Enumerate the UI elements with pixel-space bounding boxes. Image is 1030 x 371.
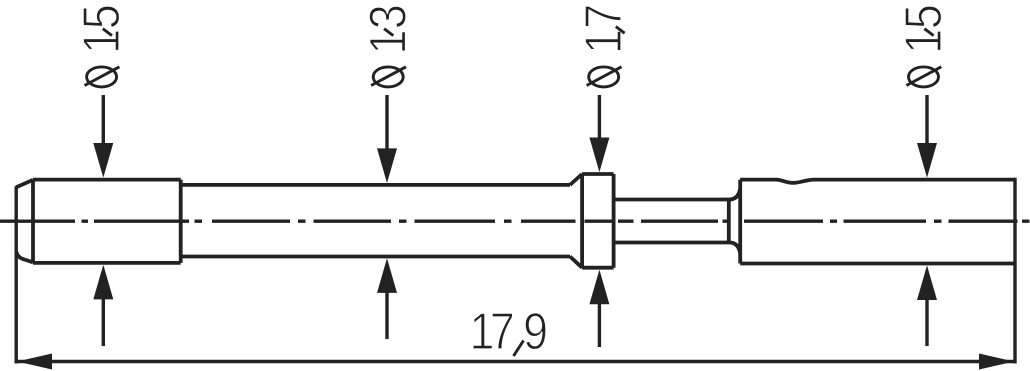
svg-text:5: 5 [73, 4, 131, 29]
svg-text:1: 1 [73, 29, 131, 54]
svg-text:7: 7 [575, 4, 633, 29]
svg-text:9: 9 [523, 303, 548, 361]
svg-text:3: 3 [359, 4, 417, 29]
svg-text:5: 5 [895, 4, 953, 29]
svg-text:1: 1 [895, 29, 953, 54]
svg-text:7: 7 [490, 303, 515, 361]
